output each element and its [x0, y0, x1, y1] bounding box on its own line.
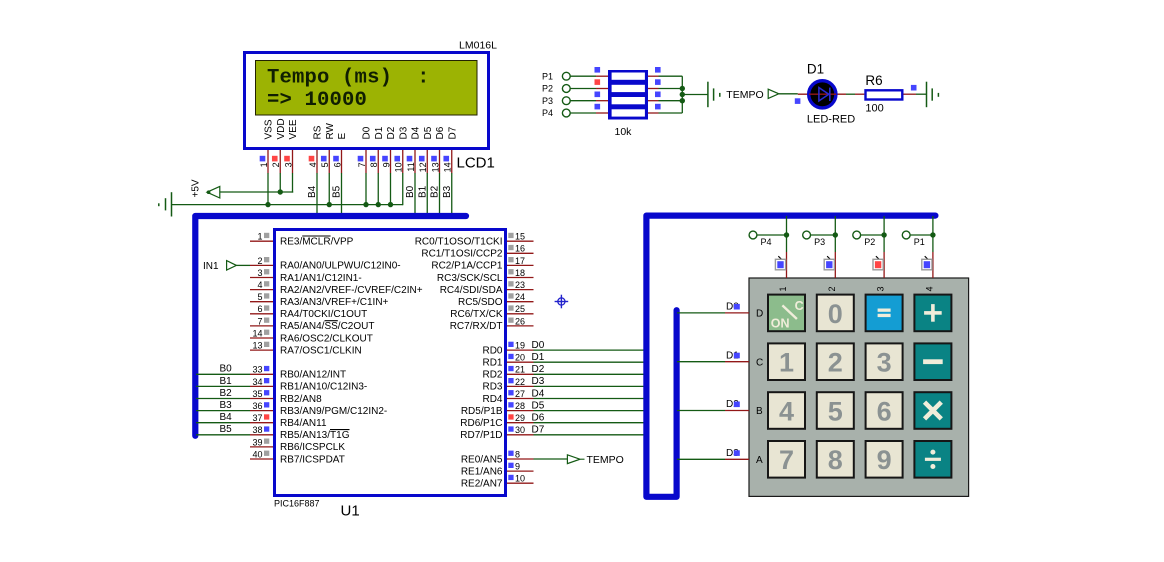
wire VDD drop to +5V rail — [279, 173, 281, 192]
junction column 4 — [930, 232, 935, 237]
wire D3 to right bus — [534, 385, 647, 387]
wire B2 from left bus to U1 RB2 — [196, 398, 250, 400]
svg-text:4: 4 — [924, 286, 934, 291]
U1 pin 38 (RB5/AN13/T1G) — [250, 425, 350, 441]
junction pack out mid — [680, 92, 685, 97]
svg-text:37: 37 — [252, 413, 262, 423]
svg-text:IN1: IN1 — [203, 261, 219, 272]
svg-text:B5: B5 — [332, 185, 343, 198]
indicator square P2 left — [595, 79, 601, 85]
wire RW drop to ground rail — [328, 173, 330, 205]
wire D7 to right bus — [534, 434, 647, 436]
U1 pin 18 (RC3/SCK/SCL) — [437, 268, 534, 284]
svg-text:5: 5 — [320, 162, 330, 167]
U1 pin 13 (RA7/OSC1/CLKIN) — [250, 341, 362, 357]
wire pack common to ground — [682, 94, 708, 96]
U1 pin 40 (RB7/ICSPDAT) — [250, 449, 345, 465]
wire P2 to resistor pack — [570, 88, 596, 90]
key 2 — [817, 343, 854, 380]
key = — [866, 295, 903, 332]
svg-text:2: 2 — [257, 256, 262, 266]
svg-text:9: 9 — [381, 162, 391, 167]
U1 pin 20 (RD1) — [482, 353, 533, 369]
U1 pin 1 (RE3/MCLR/VPP) — [250, 232, 354, 248]
LCD1 pin 2 (VDD) — [271, 118, 287, 173]
svg-text:RB2/AN8: RB2/AN8 — [280, 394, 322, 405]
svg-text:D4: D4 — [411, 126, 422, 139]
svg-text:P1: P1 — [914, 237, 925, 247]
svg-text:PIC16F887: PIC16F887 — [274, 499, 320, 509]
svg-text:RC0/T1OSO/T1CKI: RC0/T1OSO/T1CKI — [415, 237, 503, 248]
wire keypad row A from bus — [677, 458, 725, 460]
svg-text:RA6/OSC2/CLKOUT: RA6/OSC2/CLKOUT — [280, 333, 373, 344]
wire resistor pack output 1 — [648, 75, 659, 77]
terminal P3 (resistor pack input) — [542, 96, 570, 106]
wire LCD D1 drop to ground rail — [377, 173, 379, 205]
svg-text:RB4/AN11: RB4/AN11 — [280, 418, 327, 429]
svg-text:D5: D5 — [423, 126, 434, 139]
ground (rotated, R6) — [927, 82, 939, 108]
svg-text:RC4/SDI/SDA: RC4/SDI/SDA — [440, 285, 503, 296]
svg-text:RA0/AN0/ULPWU/C12IN0-: RA0/AN0/ULPWU/C12IN0- — [280, 261, 401, 272]
svg-text:18: 18 — [515, 268, 525, 278]
svg-text:14: 14 — [252, 328, 262, 338]
wire LCD D3 drop to ground rail (corner) — [402, 173, 404, 205]
svg-text:1: 1 — [259, 162, 269, 167]
LCD display LCD1 (LM016L) body — [245, 53, 489, 149]
svg-text:RE2/AN7: RE2/AN7 — [461, 479, 503, 490]
svg-text:1: 1 — [779, 348, 794, 378]
svg-text:11: 11 — [406, 162, 416, 171]
wire RS drop to bus (net B4) — [316, 173, 318, 216]
svg-text:RB5/AN13/T1G: RB5/AN13/T1G — [280, 430, 350, 441]
U1 pin 21 (RD2) — [482, 365, 533, 381]
U1 pin 5 (RA3/AN3/VREF+/C1IN+) — [250, 292, 389, 308]
svg-text:40: 40 — [252, 449, 262, 459]
wire keypad column 3 to bus — [883, 216, 885, 252]
svg-text:RA7/OSC1/CLKIN: RA7/OSC1/CLKIN — [280, 345, 362, 356]
LCD1 pin 6 (E) — [332, 133, 348, 174]
svg-text:20: 20 — [515, 353, 525, 363]
LCD1 pin 12 (D5) — [418, 126, 434, 173]
LCD1 pin 10 (D3) — [394, 126, 410, 173]
svg-text:8: 8 — [369, 162, 379, 167]
terminal P2 — [853, 231, 875, 247]
wire U1 pin 8 to TEMPO terminal — [534, 458, 568, 460]
junction column 1 — [784, 232, 789, 237]
svg-text:RD6/P1C: RD6/P1C — [460, 418, 502, 429]
wire P4 to resistor pack — [570, 112, 596, 114]
wire P4 to column — [757, 234, 787, 236]
svg-text:Tempo (ms) :: Tempo (ms) : — [267, 67, 430, 90]
svg-text:4: 4 — [257, 280, 262, 290]
junction RW/gnd — [327, 202, 332, 207]
wire LCD D7 drop to bus (net B3) — [451, 173, 453, 216]
svg-text:R6: R6 — [865, 73, 882, 88]
svg-text:D1: D1 — [374, 126, 385, 139]
svg-text:36: 36 — [252, 401, 262, 411]
wire D6 to right bus — [534, 422, 647, 424]
key 6 — [866, 392, 903, 429]
bus (left, LCD to PIC port B) — [195, 216, 466, 436]
indicator probe column 4 — [922, 256, 932, 270]
svg-text:38: 38 — [252, 425, 262, 435]
wire IN1 to U1 pin 2 — [236, 264, 250, 266]
svg-text:4: 4 — [779, 396, 794, 426]
svg-text:39: 39 — [252, 437, 262, 447]
svg-text:23: 23 — [515, 280, 525, 290]
LED D1 anode stub — [798, 93, 846, 95]
LCD1 pin 8 (D1) — [369, 126, 385, 173]
wire resistor pack common join — [681, 76, 683, 113]
svg-text:RD3: RD3 — [482, 382, 502, 393]
LCD1 pin 9 (D2) — [381, 126, 397, 173]
ground (left, LCD GND net) — [159, 192, 172, 216]
U1 pin 23 (RC4/SDI/SDA) — [440, 280, 534, 296]
svg-text:2: 2 — [271, 162, 281, 167]
input terminal TEMPO (LED drive) — [726, 89, 779, 101]
wire TEMPO to LED D1 — [779, 93, 798, 95]
svg-text:B3: B3 — [442, 185, 453, 198]
svg-text:28: 28 — [515, 401, 525, 411]
svg-text:RS: RS — [313, 125, 324, 139]
junction pack out P2 — [680, 86, 685, 91]
key 1 — [768, 343, 805, 380]
U1 pin 19 (RD0) — [482, 341, 533, 357]
resistor R6 — [866, 90, 903, 99]
indicator probe column 3 — [873, 256, 883, 270]
U1 pin 8 (RE0/AN5) — [461, 449, 534, 465]
svg-text:14: 14 — [443, 162, 453, 172]
key 9 — [866, 441, 903, 478]
LCD1 pin 5 (RW) — [320, 122, 336, 173]
svg-text:RA5/AN4/SS/C2OUT: RA5/AN4/SS/C2OUT — [280, 321, 374, 332]
svg-text:5: 5 — [828, 396, 843, 426]
key 0 — [817, 295, 854, 332]
junction D1/gnd — [376, 202, 381, 207]
svg-text:B0: B0 — [405, 185, 416, 198]
wire keypad row C from bus — [677, 361, 725, 363]
U1 pin 15 (RC0/T1OSO/T1CKI) — [415, 232, 534, 248]
wire B1 from left bus to U1 RB1 — [196, 385, 250, 387]
svg-text:12: 12 — [418, 162, 428, 172]
svg-text:A: A — [756, 455, 763, 466]
wire ground rail — [172, 204, 403, 206]
wire D1 to right bus — [534, 361, 647, 363]
svg-text:RD4: RD4 — [482, 394, 502, 405]
svg-text:21: 21 — [515, 365, 525, 375]
key 4 — [768, 392, 805, 429]
wire B3 from left bus to U1 RB3 — [196, 410, 250, 412]
indicator probe column 2 — [824, 256, 834, 270]
terminal P3 — [803, 231, 825, 247]
svg-text:RB3/AN9/PGM/C12IN2-: RB3/AN9/PGM/C12IN2- — [280, 406, 387, 417]
svg-text:9: 9 — [877, 445, 892, 475]
svg-text:RC2/P1A/CCP1: RC2/P1A/CCP1 — [431, 261, 503, 272]
svg-text:RW: RW — [325, 122, 336, 139]
indicator square out 1 — [655, 67, 661, 73]
indicator square R6 out — [911, 85, 917, 91]
U1 pin 22 (RD3) — [482, 377, 533, 393]
svg-text:TEMPO: TEMPO — [726, 89, 763, 101]
microcontroller U1 PIC16F887 body — [275, 230, 506, 496]
svg-text:LCD1: LCD1 — [457, 155, 495, 172]
U1 pin 17 (RC2/P1A/CCP1) — [431, 256, 533, 272]
svg-text:5: 5 — [257, 292, 262, 302]
svg-text:22: 22 — [515, 377, 525, 387]
U1 pin 27 (RD4) — [482, 389, 533, 405]
wire B5 from left bus to U1 RB5 — [196, 434, 250, 436]
svg-text:RE3/MCLR/VPP: RE3/MCLR/VPP — [280, 237, 354, 248]
resistor pack RN1 body — [608, 70, 648, 120]
svg-text:C: C — [795, 299, 804, 313]
LCD1 pin 4 (RS) — [308, 125, 324, 173]
wire P2 to column — [861, 234, 885, 236]
wire R6 to ground — [903, 93, 916, 95]
svg-text:15: 15 — [515, 232, 525, 242]
terminal P4 — [749, 231, 771, 247]
svg-text:P1: P1 — [542, 71, 553, 81]
svg-text:8: 8 — [515, 449, 520, 459]
junction column 2 — [833, 232, 838, 237]
wire P3 to column — [811, 234, 836, 236]
terminal P2 (resistor pack input) — [542, 84, 570, 94]
U1 pin 29 (RD6/P1C) — [460, 413, 533, 429]
svg-text:LED-RED: LED-RED — [807, 113, 855, 125]
wire D5 to right bus — [534, 410, 647, 412]
svg-text:RD1: RD1 — [482, 358, 502, 369]
svg-text:3: 3 — [877, 348, 892, 378]
svg-text:34: 34 — [252, 377, 262, 387]
svg-text:10: 10 — [515, 474, 525, 484]
wire resistor pack output 4 — [648, 112, 659, 114]
ground (rotated, resistor pack common) — [708, 82, 720, 108]
svg-text:P3: P3 — [814, 237, 825, 247]
net label D0 (row D) — [726, 302, 740, 313]
terminal P1 (resistor pack input) — [542, 71, 570, 81]
svg-text:RD2: RD2 — [482, 370, 502, 381]
svg-text:VSS: VSS — [264, 119, 275, 139]
U1 pin 35 (RB2/AN8) — [250, 389, 322, 405]
U1 pin 26 (RC7/RX/DT) — [450, 316, 534, 332]
svg-text:13: 13 — [430, 162, 440, 172]
U1 pin 34 (RB1/AN10/C12IN3-) — [250, 377, 367, 393]
svg-text:9: 9 — [515, 462, 520, 472]
svg-text:RE1/AN6: RE1/AN6 — [461, 466, 503, 477]
svg-text:D3: D3 — [398, 126, 409, 139]
junction VSS/gnd — [265, 202, 270, 207]
svg-text:D7: D7 — [447, 126, 458, 139]
svg-text:RA1/AN1/C12IN1-: RA1/AN1/C12IN1- — [280, 273, 362, 284]
wire keypad row B from bus — [677, 410, 725, 412]
U1 pin 10 (RE2/AN7) — [461, 474, 534, 490]
svg-text:C: C — [756, 357, 763, 368]
U1 pin 9 (RE1/AN6) — [461, 462, 534, 478]
junction VDD/+5V — [278, 189, 283, 194]
key 8 — [817, 441, 854, 478]
LCD1 pin 1 (VSS) — [259, 119, 275, 173]
key ÷ — [914, 441, 951, 478]
svg-text:30: 30 — [515, 425, 525, 435]
svg-text:D2: D2 — [532, 364, 545, 375]
svg-text:35: 35 — [252, 389, 262, 399]
U1 pin 39 (RB6/ICSPCLK) — [250, 437, 345, 453]
svg-text:VEE: VEE — [288, 119, 299, 139]
wire +5V rail to VEE corner — [220, 191, 293, 193]
svg-text:+5V: +5V — [191, 179, 202, 197]
wire LCD D2 drop to ground rail — [390, 173, 392, 205]
wire D2 to right bus — [534, 373, 647, 375]
svg-text:3: 3 — [876, 286, 886, 291]
wire D4 to right bus — [534, 398, 647, 400]
wire LCD D4 drop to bus (net B0) — [414, 173, 416, 216]
wire LCD D5 drop to bus (net B1) — [426, 173, 428, 216]
svg-text:RD0: RD0 — [482, 345, 502, 356]
key ON/C — [768, 295, 805, 332]
svg-text:TEMPO: TEMPO — [587, 454, 624, 466]
power terminal +5V — [191, 179, 220, 198]
svg-text:16: 16 — [515, 244, 525, 254]
svg-text:6: 6 — [332, 162, 342, 167]
svg-text:B1: B1 — [417, 185, 428, 198]
svg-text:2: 2 — [827, 286, 837, 291]
U1 pin 7 (RA5/AN4/SS/C2OUT) — [250, 316, 374, 332]
svg-text:D2: D2 — [386, 126, 397, 139]
key + — [914, 295, 951, 332]
wire D0 to right bus — [534, 349, 647, 351]
svg-text:4: 4 — [308, 162, 318, 167]
svg-text:27: 27 — [515, 389, 525, 399]
svg-text:D3: D3 — [532, 376, 545, 387]
wire P1 to column — [910, 234, 933, 236]
svg-text:P2: P2 — [864, 237, 875, 247]
svg-text:100: 100 — [865, 103, 883, 115]
net label D3 (row A) — [726, 448, 740, 459]
key - — [914, 343, 951, 380]
svg-text:B2: B2 — [430, 185, 441, 198]
U1 pin 37 (RB4/AN11) — [250, 413, 327, 429]
key 7 — [768, 441, 805, 478]
svg-text:RD7/P1D: RD7/P1D — [460, 430, 502, 441]
svg-text:D5: D5 — [532, 400, 545, 411]
U1 pin 30 (RD7/P1D) — [460, 425, 533, 441]
terminal P4 (resistor pack input) — [542, 108, 570, 118]
svg-text:26: 26 — [515, 316, 525, 326]
indicator square P3 left — [595, 92, 601, 98]
svg-text:B5: B5 — [220, 424, 233, 435]
wire P1 to resistor pack — [570, 75, 596, 77]
svg-text:D6: D6 — [532, 413, 545, 424]
svg-text:RB0/AN12/INT: RB0/AN12/INT — [280, 370, 346, 381]
indicator square out 3 — [655, 92, 661, 98]
svg-text:D0: D0 — [532, 340, 545, 351]
svg-text:24: 24 — [515, 292, 525, 302]
svg-text:B3: B3 — [220, 400, 233, 411]
U1 pin 28 (RD5/P1B) — [461, 401, 534, 417]
svg-text:RA3/AN3/VREF+/C1IN+: RA3/AN3/VREF+/C1IN+ — [280, 297, 389, 308]
svg-text:U1: U1 — [341, 503, 360, 520]
svg-text:10: 10 — [394, 162, 404, 172]
svg-text:E: E — [337, 133, 348, 140]
svg-text:7: 7 — [257, 316, 262, 326]
wire keypad column 1 to bus — [786, 216, 788, 252]
svg-text:RC3/SCK/SCL: RC3/SCK/SCL — [437, 273, 503, 284]
LCD1 pin 14 (D7) — [443, 126, 459, 173]
junction pack out P3 — [680, 98, 685, 103]
svg-text:B2: B2 — [220, 388, 233, 399]
wire keypad column 4 to bus — [932, 216, 934, 252]
svg-text:17: 17 — [515, 256, 525, 266]
wire LCD D6 drop to bus (net B2) — [439, 173, 441, 216]
svg-text:B4: B4 — [220, 412, 233, 423]
U1 pin 6 (RA4/T0CKI/C1OUT) — [250, 304, 367, 320]
svg-text:RC7/RX/DT: RC7/RX/DT — [450, 321, 503, 332]
svg-text:RA2/AN2/VREF-/CVREF/C2IN+: RA2/AN2/VREF-/CVREF/C2IN+ — [280, 285, 423, 296]
svg-text:2: 2 — [828, 348, 843, 378]
wire LED to R6 — [846, 93, 855, 95]
svg-text:RD5/P1B: RD5/P1B — [461, 406, 503, 417]
LED D1 — [809, 81, 836, 108]
indicator square LED in — [795, 98, 801, 104]
svg-text:6: 6 — [257, 304, 262, 314]
svg-text:B0: B0 — [220, 364, 233, 375]
svg-text:P3: P3 — [542, 96, 553, 106]
U1 pin 36 (RB3/AN9/PGM/C12IN2-) — [250, 401, 387, 417]
bus (right, keypad) — [646, 216, 935, 497]
svg-text:1: 1 — [257, 232, 262, 242]
svg-text:D0: D0 — [362, 126, 373, 139]
LCD1 pin 13 (D6) — [430, 126, 446, 173]
key × — [914, 392, 951, 429]
svg-text:1: 1 — [778, 286, 788, 291]
wire P3 to resistor pack — [570, 100, 596, 102]
svg-text:RE0/AN5: RE0/AN5 — [461, 454, 503, 465]
LCD1 pin 11 (D4) — [406, 126, 422, 173]
wire B0 from left bus to U1 RB0 — [196, 373, 250, 375]
svg-text:3: 3 — [257, 268, 262, 278]
svg-text:D6: D6 — [435, 126, 446, 139]
svg-text:RA4/T0CKI/C1OUT: RA4/T0CKI/C1OUT — [280, 309, 367, 320]
svg-text:RB7/ICSPDAT: RB7/ICSPDAT — [280, 454, 345, 465]
net label D1 (row C) — [726, 350, 740, 361]
wire resistor pack output 3 — [648, 100, 659, 102]
input terminal IN1 — [203, 261, 236, 272]
origin marker — [555, 295, 569, 309]
junction D2/gnd — [388, 202, 393, 207]
LCD1 pin 7 (D0) — [357, 126, 373, 173]
wire VSS drop to ground rail — [267, 173, 269, 205]
svg-text:RC5/SDO: RC5/SDO — [458, 297, 503, 308]
indicator probe column 1 — [775, 256, 785, 270]
U1 pin 33 (RB0/AN12/INT) — [250, 365, 346, 381]
junction D0/gnd — [363, 202, 368, 207]
svg-text:B4: B4 — [307, 185, 318, 198]
svg-text:RC1/T1OSI/CCP2: RC1/T1OSI/CCP2 — [421, 249, 503, 260]
svg-text:ON: ON — [771, 316, 790, 330]
svg-text:RC6/TX/CK: RC6/TX/CK — [450, 309, 503, 320]
net label D2 (row B) — [726, 399, 740, 410]
key 5 — [817, 392, 854, 429]
U1 pin 24 (RC5/SDO) — [458, 292, 533, 308]
svg-text:6: 6 — [877, 396, 892, 426]
svg-text:D7: D7 — [532, 425, 545, 436]
svg-text:33: 33 — [252, 365, 262, 375]
terminal P1 — [902, 231, 924, 247]
indicator square out 2 — [655, 79, 661, 85]
svg-text:29: 29 — [515, 413, 525, 423]
wire B4 from left bus to U1 RB4 — [196, 422, 250, 424]
svg-text:P2: P2 — [542, 84, 553, 94]
